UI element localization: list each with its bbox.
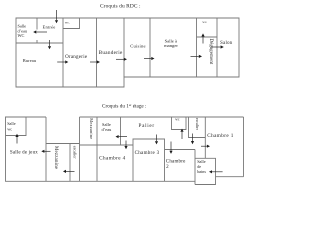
svg-text:WC: WC — [18, 33, 25, 38]
central block right — [243, 117, 245, 177]
arrow down into chambre 3 — [155, 135, 158, 145]
svg-text:Entrée: Entrée — [43, 25, 56, 30]
arrow up into wc 1er — [180, 129, 183, 139]
arrow entrance down — [55, 10, 58, 23]
svg-text:Mezzanine: Mezzanine — [89, 118, 94, 139]
arrow down from escalier strip — [191, 134, 194, 145]
svg-text:escalier: escalier — [72, 146, 77, 159]
arrow down into chambre 4 — [124, 141, 127, 150]
arrow entree down to bureau — [48, 40, 51, 49]
arrow up into salle wc — [15, 134, 18, 144]
wc box 1er — [172, 117, 187, 130]
escalier right / central block left — [79, 117, 81, 181]
wall salle a manger / degagement — [196, 18, 198, 77]
arrow down into chambre 2 — [169, 142, 172, 154]
svg-text:Salle de jeux: Salle de jeux — [10, 150, 38, 155]
svg-text:escalier: escalier — [195, 118, 200, 131]
wall buanderie / cuisine — [123, 18, 125, 77]
svg-text:wc.: wc. — [65, 20, 70, 24]
wc box RDC right bottom — [197, 36, 218, 38]
svg-text:Salle: Salle — [7, 121, 16, 126]
arrow into salle de jeux — [41, 150, 50, 153]
wall salle d'eau / entree divider (door gap) — [36, 18, 38, 43]
wall cuisine / salle a manger — [149, 18, 151, 77]
svg-text:Buanderie: Buanderie — [99, 50, 123, 56]
mezzanine strip top — [46, 143, 80, 145]
1er: salle de jeux outer — [6, 117, 196, 181]
svg-text:Chambre 4: Chambre 4 — [99, 156, 126, 162]
arrow degagement to salon — [211, 45, 224, 48]
wall x97 mezz2 divider + chambre4 left — [96, 117, 98, 181]
arrow entree to salle d'eau — [33, 30, 47, 33]
chambre2 right + salle de bains left wall — [194, 150, 196, 185]
svg-text:Croquis du 1er étage :: Croquis du 1er étage : — [102, 103, 147, 110]
arrow escalier to mezzanine — [63, 170, 75, 173]
svg-text:d’eau: d’eau — [102, 127, 113, 132]
arrow into chambre 1 — [201, 145, 210, 148]
salle wc box — [6, 117, 27, 136]
svg-text:Croquis du RDC :: Croquis du RDC : — [100, 4, 141, 10]
escalier strip right (dressing) — [189, 117, 206, 158]
wall entree row bottom — [16, 42, 63, 44]
mezzanine / escalier divider — [69, 144, 71, 182]
salle de bains box — [195, 158, 216, 184]
svg-text:Chambre: Chambre — [166, 160, 186, 165]
arrow into salle d'eau 1er — [116, 135, 128, 138]
svg-text:Orangerie: Orangerie — [65, 55, 88, 60]
wall under mezzanine2/salle d'eau, chambre4 top — [80, 144, 134, 146]
svg-text:Chambre 1: Chambre 1 — [207, 133, 234, 139]
svg-text:wc: wc — [175, 117, 180, 121]
arrow orangerie to buanderie — [90, 60, 100, 63]
arrow salle a manger to degagement — [191, 55, 203, 58]
wall degagement / salon — [216, 18, 218, 77]
salle d'eau right wall — [120, 117, 122, 145]
arrow into salle de bains — [209, 170, 223, 173]
svg-text:bains: bains — [197, 169, 206, 174]
RDC outer wall — [16, 18, 239, 87]
arrow bureau to orangerie — [57, 60, 68, 63]
wall entree-bureau / orangerie — [62, 18, 64, 87]
svg-text:Bureau: Bureau — [23, 58, 37, 63]
chambre 2 top — [165, 149, 196, 151]
svg-text:manger: manger — [164, 43, 178, 48]
svg-text:Mezzanine: Mezzanine — [53, 146, 58, 169]
svg-text:wc.: wc. — [202, 20, 207, 24]
svg-text:wc: wc — [7, 126, 12, 131]
wc box RDC near entrance — [63, 18, 80, 29]
svg-text:Chambre 3: Chambre 3 — [135, 151, 160, 156]
arrow buanderie to cuisine — [116, 58, 127, 61]
wall orangerie / buanderie — [96, 18, 98, 87]
svg-text:Dégagement: Dégagement — [208, 39, 213, 65]
salle de jeux right wall — [45, 117, 47, 181]
svg-text:Cuisine: Cuisine — [130, 43, 145, 48]
svg-text:Salon: Salon — [220, 41, 233, 46]
central block top — [80, 116, 244, 118]
chambre 3 box — [133, 139, 165, 181]
arrow cuisine to salle a manger — [144, 57, 155, 60]
svg-text:Palier: Palier — [139, 123, 155, 129]
arrow degagement up to wc — [201, 33, 204, 43]
bottom right segment — [216, 176, 244, 178]
